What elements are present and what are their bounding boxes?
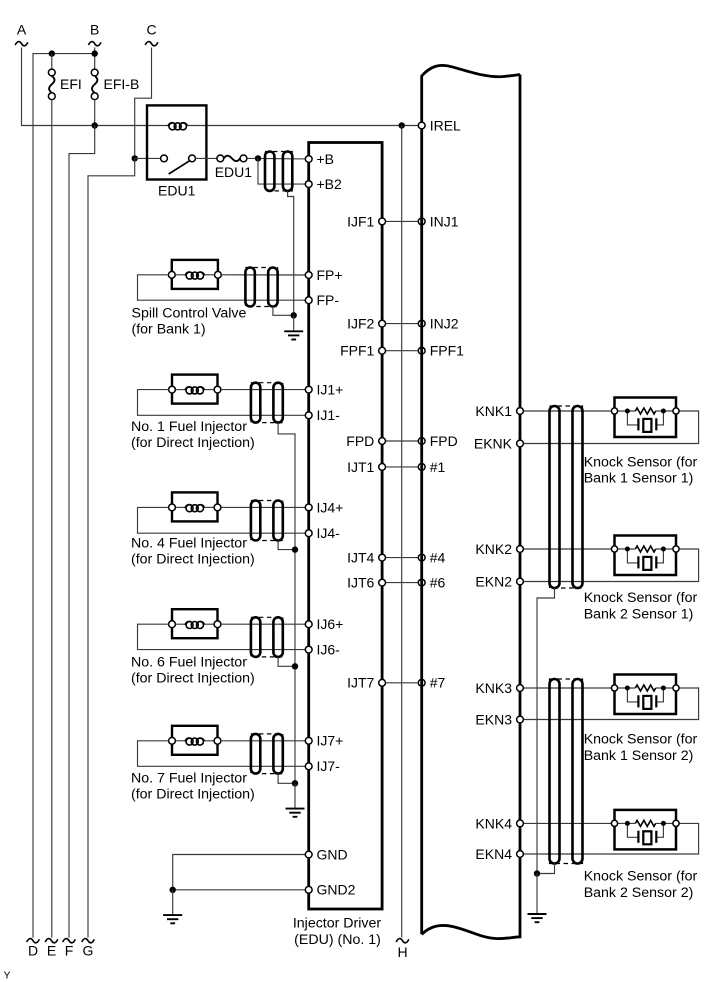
svg-text:Knock Sensor (for: Knock Sensor (for <box>584 455 698 471</box>
wire spill valve to FP+ <box>221 274 305 276</box>
svg-text:#1: #1 <box>430 459 446 475</box>
pin #1 of ECU <box>418 459 445 475</box>
svg-text:IJ4+: IJ4+ <box>317 499 344 515</box>
svg-text:FPD: FPD <box>430 433 458 449</box>
pin KNK2 of ECU <box>475 541 523 557</box>
svg-text:KNK4: KNK4 <box>475 815 512 831</box>
wire F branch <box>69 126 95 938</box>
junction shield injector 4 <box>278 541 295 550</box>
svg-text:EFI-B: EFI-B <box>104 76 140 92</box>
wire IJT6 to #6 <box>386 582 419 584</box>
wire IJT7 to #7 <box>386 682 419 684</box>
svg-text:IREL: IREL <box>430 117 461 133</box>
junction +B branch <box>255 155 261 161</box>
pin KNK4 of ECU <box>475 815 523 831</box>
pin #4 of ECU <box>418 550 445 566</box>
knock sensor 1 (Bank 1 Sensor 1) wiring and box <box>523 410 614 412</box>
svg-text:IJ1+: IJ1+ <box>317 382 344 398</box>
junction knock shields <box>534 870 540 876</box>
wire No. 7 to + pin <box>221 740 305 742</box>
relay EDU1 box <box>147 105 206 179</box>
svg-text:(for Bank 1): (for Bank 1) <box>132 322 206 338</box>
svg-text:KNK1: KNK1 <box>475 403 512 419</box>
svg-text:IJT6: IJT6 <box>347 575 374 591</box>
junction IREL / H wire <box>399 122 405 128</box>
shield drain knock pair 2 <box>537 864 555 874</box>
svg-text:B: B <box>90 22 99 38</box>
injector No. 6 coil box <box>172 609 218 638</box>
node D <box>27 939 40 959</box>
svg-text:FP-: FP- <box>317 292 340 308</box>
wire G branch <box>88 158 135 937</box>
svg-text:IJ7-: IJ7- <box>317 758 341 774</box>
wire No. 4 to + pin <box>221 506 305 508</box>
svg-text:IJ1-: IJ1- <box>317 407 341 423</box>
svg-text:IJT4: IJT4 <box>347 550 374 566</box>
svg-text:(for Direct Injection): (for Direct Injection) <box>131 552 255 568</box>
svg-text:G: G <box>83 943 94 959</box>
svg-text:INJ2: INJ2 <box>430 316 459 332</box>
svg-text:IJT7: IJT7 <box>347 675 374 691</box>
node F <box>63 939 76 959</box>
svg-text:IJ4-: IJ4- <box>317 525 341 541</box>
svg-text:D: D <box>28 943 38 959</box>
shielded pair for +B feed <box>265 152 292 191</box>
pin IJ1- of EDU <box>305 407 340 423</box>
svg-text:EDU1: EDU1 <box>158 183 196 199</box>
svg-text:+B2: +B2 <box>317 176 343 192</box>
svg-text:EKNK: EKNK <box>474 435 513 451</box>
wire A to relay coil <box>22 48 168 126</box>
junction shield injector 7 <box>278 774 295 784</box>
svg-text:(for Direct Injection): (for Direct Injection) <box>131 435 255 451</box>
svg-text:A: A <box>17 22 27 38</box>
junction shield ground spill <box>291 312 297 318</box>
pin #7 of ECU <box>418 675 445 691</box>
wire GND to ground <box>173 855 306 890</box>
injector No. 1 coil box <box>172 375 218 404</box>
pin IJT4 of EDU <box>347 550 385 566</box>
svg-text:No. 4 Fuel Injector: No. 4 Fuel Injector <box>131 536 247 552</box>
svg-text:No. 7 Fuel Injector: No. 7 Fuel Injector <box>131 771 247 787</box>
ground injector shields <box>286 809 305 817</box>
wire No. 1 left loop <box>138 390 306 416</box>
wire junction to ground symbol <box>172 890 174 915</box>
pin #6 of ECU <box>418 575 445 591</box>
svg-text:C: C <box>146 22 156 38</box>
svg-text:(for Direct Injection): (for Direct Injection) <box>131 671 255 687</box>
svg-text:IJ6-: IJ6- <box>317 642 341 658</box>
svg-text:KNK3: KNK3 <box>475 680 512 696</box>
knock sensor 2 (Bank 2 Sensor 1) wiring and box <box>523 548 614 550</box>
svg-text:Bank 2 Sensor 1): Bank 2 Sensor 1) <box>584 607 694 623</box>
relay EDU1 coil <box>168 123 188 130</box>
svg-text:Knock Sensor (for: Knock Sensor (for <box>584 590 698 606</box>
wire B down to bus <box>94 48 96 70</box>
fuse EFI-B <box>91 69 98 100</box>
pin FPD of ECU <box>418 433 457 449</box>
svg-text:EFI: EFI <box>60 76 82 92</box>
pin IJT6 of EDU <box>347 575 385 591</box>
svg-text:IJT1: IJT1 <box>347 459 374 475</box>
wire No. 7 left loop <box>138 741 306 767</box>
svg-text:Spill Control Valve: Spill Control Valve <box>132 306 247 322</box>
shielded pair No. 6 <box>251 617 283 657</box>
junction at B top bus <box>92 50 98 56</box>
shielded pair No. 1 <box>251 383 283 423</box>
wire EFI top <box>51 54 53 70</box>
ECU body <box>422 65 520 934</box>
svg-text:No. 1 Fuel Injector: No. 1 Fuel Injector <box>131 419 247 435</box>
wire FPD to FPD <box>386 440 419 442</box>
pin FPF1 of EDU <box>340 343 385 359</box>
wire to ground <box>293 315 295 331</box>
svg-text:Knock Sensor (for: Knock Sensor (for <box>584 869 698 885</box>
junction C / relay switch <box>132 155 138 161</box>
pin FPF1 of ECU <box>418 343 464 359</box>
shield drain FP pair <box>273 307 294 316</box>
svg-text:(EDU) (No. 1): (EDU) (No. 1) <box>294 932 381 948</box>
wire branch to +B2 <box>258 158 305 184</box>
svg-text:IJ7+: IJ7+ <box>317 733 344 749</box>
pin IJ4+ of EDU <box>305 499 343 515</box>
pin +B2 of EDU <box>305 176 342 192</box>
svg-text:+B: +B <box>317 151 335 167</box>
pin GND of EDU <box>305 846 347 862</box>
svg-text:IJ6+: IJ6+ <box>317 616 344 632</box>
svg-text:FPF1: FPF1 <box>340 343 374 359</box>
wire GND2 to ground <box>173 889 306 891</box>
svg-text:KNK2: KNK2 <box>475 541 512 557</box>
wire No. 1 to + pin <box>221 389 305 391</box>
wire No. 6 to + pin <box>221 623 305 625</box>
pin IJ4- of EDU <box>305 525 340 541</box>
svg-text:INJ1: INJ1 <box>430 213 459 229</box>
wire E: EFI to bottom <box>51 100 53 938</box>
pin IJF2 of EDU <box>347 316 385 332</box>
wire spill valve left loop to FP- <box>138 275 306 300</box>
wire C junction to relay switch <box>135 157 161 159</box>
svg-text:EKN2: EKN2 <box>475 573 512 589</box>
wire to injector shield ground <box>294 783 296 808</box>
svg-text:GND: GND <box>317 846 348 862</box>
node G <box>82 939 95 959</box>
wire IJT4 to #4 <box>386 557 419 559</box>
pin KNK1 of ECU <box>475 403 523 419</box>
pin GND2 of EDU <box>305 882 355 898</box>
pin IREL of ECU <box>418 117 461 133</box>
wire relay coil to IREL <box>188 125 419 127</box>
shielded pair knock sensors 1-2 <box>550 406 583 588</box>
svg-text:(for Direct Injection): (for Direct Injection) <box>131 787 255 803</box>
wire H drop <box>401 126 403 938</box>
shielded pair FP <box>245 268 277 307</box>
pin EKNK of ECU <box>474 435 524 451</box>
svg-text:Knock Sensor (for: Knock Sensor (for <box>584 732 698 748</box>
shield drain knock pair 1 <box>537 588 555 874</box>
junction GND/GND2 <box>170 887 176 893</box>
wire knock shield to ground <box>536 874 538 915</box>
pin IJT7 of EDU <box>347 675 385 691</box>
pin EKN3 of ECU <box>475 711 523 727</box>
wire IJT1 to #1 <box>386 466 419 468</box>
junction shield injector 6 <box>278 657 295 666</box>
pin KNK3 of ECU <box>475 680 523 696</box>
svg-text:#7: #7 <box>430 675 446 691</box>
fuse EDU1 <box>217 155 247 162</box>
pin INJ1 of ECU <box>418 213 458 229</box>
svg-text:Bank 1 Sensor 1): Bank 1 Sensor 1) <box>584 471 694 487</box>
svg-text:Injector Driver: Injector Driver <box>293 916 382 932</box>
svg-text:EKN4: EKN4 <box>475 846 512 862</box>
svg-text:#6: #6 <box>430 575 446 591</box>
pin EKN2 of ECU <box>475 573 523 589</box>
injector No. 4 coil box <box>172 492 218 521</box>
wire C down to relay junction <box>135 48 152 159</box>
pin INJ2 of ECU <box>418 316 458 332</box>
pin FP+ of EDU <box>305 267 342 283</box>
wire No. 6 left loop <box>138 624 306 649</box>
node E <box>45 939 58 959</box>
wire relay to fuse EDU1 <box>195 157 217 159</box>
pin IJ6+ of EDU <box>305 616 343 632</box>
shielded pair No. 4 <box>251 501 283 541</box>
wire B horizontal to D branch <box>33 54 95 938</box>
pin EKN4 of ECU <box>475 846 523 862</box>
svg-text:EKN3: EKN3 <box>475 711 512 727</box>
knock sensor 4 (Bank 2 Sensor 2) wiring and box <box>523 822 614 824</box>
wire IJF2 to INJ2 <box>386 323 419 325</box>
knock sensor 3 (Bank 1 Sensor 2) wiring and box <box>523 687 614 689</box>
shield drain of +B pair <box>288 191 294 315</box>
node H <box>396 939 409 943</box>
wire EFI-B to IREL line <box>94 100 96 126</box>
svg-text:EDU1: EDU1 <box>215 164 253 180</box>
fuse EFI <box>48 69 55 100</box>
pin FP- of EDU <box>305 292 339 308</box>
svg-text:FP+: FP+ <box>317 267 343 283</box>
injector No. 7 coil box <box>172 726 218 755</box>
svg-text:H: H <box>397 944 407 960</box>
svg-text:Bank 2 Sensor 2): Bank 2 Sensor 2) <box>584 885 694 901</box>
wire No. 4 left loop <box>138 507 306 533</box>
pin IJT1 of EDU <box>347 459 385 475</box>
shield drain injector 1 <box>278 423 295 784</box>
svg-text:FPF1: FPF1 <box>430 343 464 359</box>
shielded pair knock sensors 3-4 <box>550 679 583 864</box>
wire FPF1 to FPF1 <box>386 350 419 352</box>
svg-text:No. 6 Fuel Injector: No. 6 Fuel Injector <box>131 655 247 671</box>
relay EDU1 switch <box>161 155 196 174</box>
svg-text:Bank 1 Sensor 2): Bank 1 Sensor 2) <box>584 748 694 764</box>
svg-text:F: F <box>65 943 74 959</box>
wire IJF1 to INJ1 <box>386 220 419 222</box>
pin IJ7+ of EDU <box>305 733 343 749</box>
svg-text:Y: Y <box>4 969 11 981</box>
svg-text:IJF2: IJF2 <box>347 316 374 332</box>
junction EFI-B / IREL line <box>92 122 98 128</box>
pin +B of EDU <box>305 151 334 167</box>
ground spill shield <box>284 331 303 339</box>
pin IJ7- of EDU <box>305 758 340 774</box>
pin IJF1 of EDU <box>347 213 385 229</box>
svg-text:GND2: GND2 <box>317 882 356 898</box>
pin FPD of EDU <box>346 433 385 449</box>
shielded pair No. 7 <box>251 734 283 774</box>
svg-text:FPD: FPD <box>346 433 374 449</box>
svg-text:IJF1: IJF1 <box>347 213 374 229</box>
ground GND <box>163 915 182 923</box>
svg-text:E: E <box>47 943 56 959</box>
wire fuse to +B <box>247 157 305 160</box>
spill control valve coil box <box>172 260 218 289</box>
pin IJ6- of EDU <box>305 642 340 658</box>
svg-text:#4: #4 <box>430 550 446 566</box>
pin IJ1+ of EDU <box>305 382 343 398</box>
ground knock shields <box>528 914 547 922</box>
junction at EFI top <box>49 50 55 56</box>
injector driver EDU box <box>309 143 382 910</box>
